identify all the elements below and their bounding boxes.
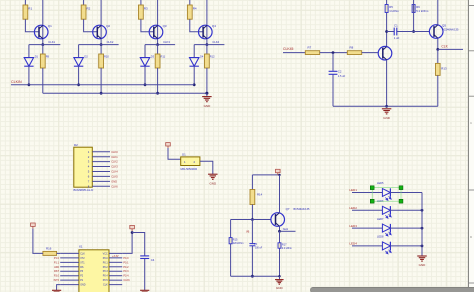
svg-text:CLK0: CLK0 xyxy=(111,150,118,154)
svg-text:C1: C1 xyxy=(394,23,398,27)
svg-text:1 uF: 1 uF xyxy=(394,36,400,40)
svg-text:1 kOhm: 1 kOhm xyxy=(389,9,399,13)
svg-text:P0.0: P0.0 xyxy=(103,257,109,260)
svg-text:LED2: LED2 xyxy=(349,206,357,210)
svg-text:P1.1: P1.1 xyxy=(54,261,60,264)
svg-text:GND: GND xyxy=(209,181,217,185)
svg-text:Q4: Q4 xyxy=(212,24,216,28)
svg-text:R15: R15 xyxy=(233,238,238,241)
svg-text:P1.0: P1.0 xyxy=(54,257,60,260)
svg-text:P0.2: P0.2 xyxy=(123,266,129,269)
svg-text:Q3: Q3 xyxy=(163,24,167,28)
svg-text:Q5: Q5 xyxy=(442,23,446,27)
svg-text:P3.0: P3.0 xyxy=(54,275,60,278)
svg-text:D3: D3 xyxy=(151,55,155,59)
svg-text:R16: R16 xyxy=(46,247,52,251)
svg-text:P0.4: P0.4 xyxy=(123,275,129,278)
svg-text:CLK1: CLK1 xyxy=(111,155,118,159)
svg-text:CLK: CLK xyxy=(80,252,85,255)
svg-text:1.5 uF: 1.5 uF xyxy=(338,74,346,78)
svg-text:RST: RST xyxy=(54,270,59,273)
svg-text:XT1: XT1 xyxy=(80,261,85,264)
svg-text:P0.5: P0.5 xyxy=(103,279,109,282)
svg-text:GND: GND xyxy=(419,263,427,267)
svg-text:P0.4: P0.4 xyxy=(103,275,109,278)
svg-text:C4: C4 xyxy=(151,258,155,262)
svg-text:LED7: LED7 xyxy=(377,217,384,221)
svg-text:5.1 kOhm: 5.1 kOhm xyxy=(416,9,429,13)
svg-text:R14: R14 xyxy=(257,193,263,197)
svg-text:LED3: LED3 xyxy=(349,224,357,228)
svg-text:P0.1: P0.1 xyxy=(103,261,109,264)
svg-text:CLKIN: CLKIN xyxy=(11,80,22,84)
svg-text:BC546AK/135: BC546AK/135 xyxy=(294,208,310,211)
svg-text:CLK6: CLK6 xyxy=(111,184,118,188)
svg-text:LED4: LED4 xyxy=(349,242,357,246)
svg-text:LED8: LED8 xyxy=(377,235,384,239)
svg-text:R8: R8 xyxy=(350,45,354,49)
svg-text:C2: C2 xyxy=(338,70,342,74)
svg-text:CLK45: CLK45 xyxy=(283,47,293,51)
svg-text:CLK2: CLK2 xyxy=(111,160,118,164)
svg-text:CLK5: CLK5 xyxy=(111,175,118,179)
svg-text:P0.1: P0.1 xyxy=(123,261,129,264)
svg-text:D1: D1 xyxy=(35,55,39,59)
svg-text:R13: R13 xyxy=(441,67,447,71)
svg-text:2.2 kOhm: 2.2 kOhm xyxy=(282,248,292,250)
svg-text:AD0: AD0 xyxy=(54,266,59,269)
svg-text:R3: R3 xyxy=(144,7,148,11)
svg-text:+3.3V: +3.3V xyxy=(112,255,119,258)
svg-text:R9: R9 xyxy=(46,55,50,59)
svg-text:D2: D2 xyxy=(84,55,88,59)
svg-text:Q7: Q7 xyxy=(286,207,290,211)
svg-text:P0.0: P0.0 xyxy=(123,257,129,260)
svg-text:C5: C5 xyxy=(254,243,258,246)
svg-text:CLK3: CLK3 xyxy=(163,40,170,44)
svg-text:Net1: Net1 xyxy=(283,228,289,231)
svg-text:VB: VB xyxy=(246,231,250,234)
svg-text:INT0: INT0 xyxy=(54,279,60,282)
svg-text:G1: G1 xyxy=(182,153,186,157)
svg-text:GND: GND xyxy=(204,104,212,108)
svg-text:MIN-50503DR: MIN-50503DR xyxy=(181,167,198,171)
svg-text:R17: R17 xyxy=(282,243,287,246)
svg-text:X1: X1 xyxy=(79,245,83,249)
svg-text:GND: GND xyxy=(80,284,86,287)
svg-text:CLK2: CLK2 xyxy=(107,40,114,44)
svg-text:VCC: VCC xyxy=(103,252,108,255)
svg-text:LED1: LED1 xyxy=(349,188,357,192)
svg-text:D2: D2 xyxy=(74,143,78,147)
svg-text:XT2: XT2 xyxy=(80,257,85,260)
svg-text:CLK3: CLK3 xyxy=(111,165,118,169)
svg-text:RS: RS xyxy=(80,266,84,269)
svg-text:CLK: CLK xyxy=(442,45,449,49)
svg-text:100 uF: 100 uF xyxy=(255,247,263,249)
svg-text:LED5: LED5 xyxy=(377,181,384,185)
svg-text:P0.3: P0.3 xyxy=(103,270,109,273)
svg-text:D4: D4 xyxy=(200,55,204,59)
svg-text:CLK: CLK xyxy=(103,284,108,287)
svg-text:R12: R12 xyxy=(210,55,215,59)
svg-text:R4: R4 xyxy=(193,7,197,11)
svg-text:Q2: Q2 xyxy=(106,24,110,28)
svg-text:R2: R2 xyxy=(87,7,91,11)
svg-text:CLK4: CLK4 xyxy=(111,170,118,174)
svg-text:GND: GND xyxy=(383,116,391,120)
svg-text:R11: R11 xyxy=(161,55,166,59)
svg-text:GND: GND xyxy=(111,179,117,183)
svg-text:BCM2835-AL-D: BCM2835-AL-D xyxy=(74,188,94,192)
svg-text:CLK6: CLK6 xyxy=(123,279,130,282)
svg-text:R1: R1 xyxy=(28,7,32,11)
svg-text:R7: R7 xyxy=(308,45,312,49)
svg-text:R10: R10 xyxy=(104,55,109,59)
svg-text:BC546AK/135: BC546AK/135 xyxy=(442,28,459,32)
svg-text:CLK1: CLK1 xyxy=(48,40,55,44)
svg-text:220 kOhm: 220 kOhm xyxy=(233,243,244,245)
svg-text:GND: GND xyxy=(276,286,284,290)
svg-text:P0.3: P0.3 xyxy=(123,270,129,273)
svg-text:P0.2: P0.2 xyxy=(103,266,109,269)
svg-text:CLK4: CLK4 xyxy=(212,40,219,44)
svg-text:Q1: Q1 xyxy=(48,24,52,28)
